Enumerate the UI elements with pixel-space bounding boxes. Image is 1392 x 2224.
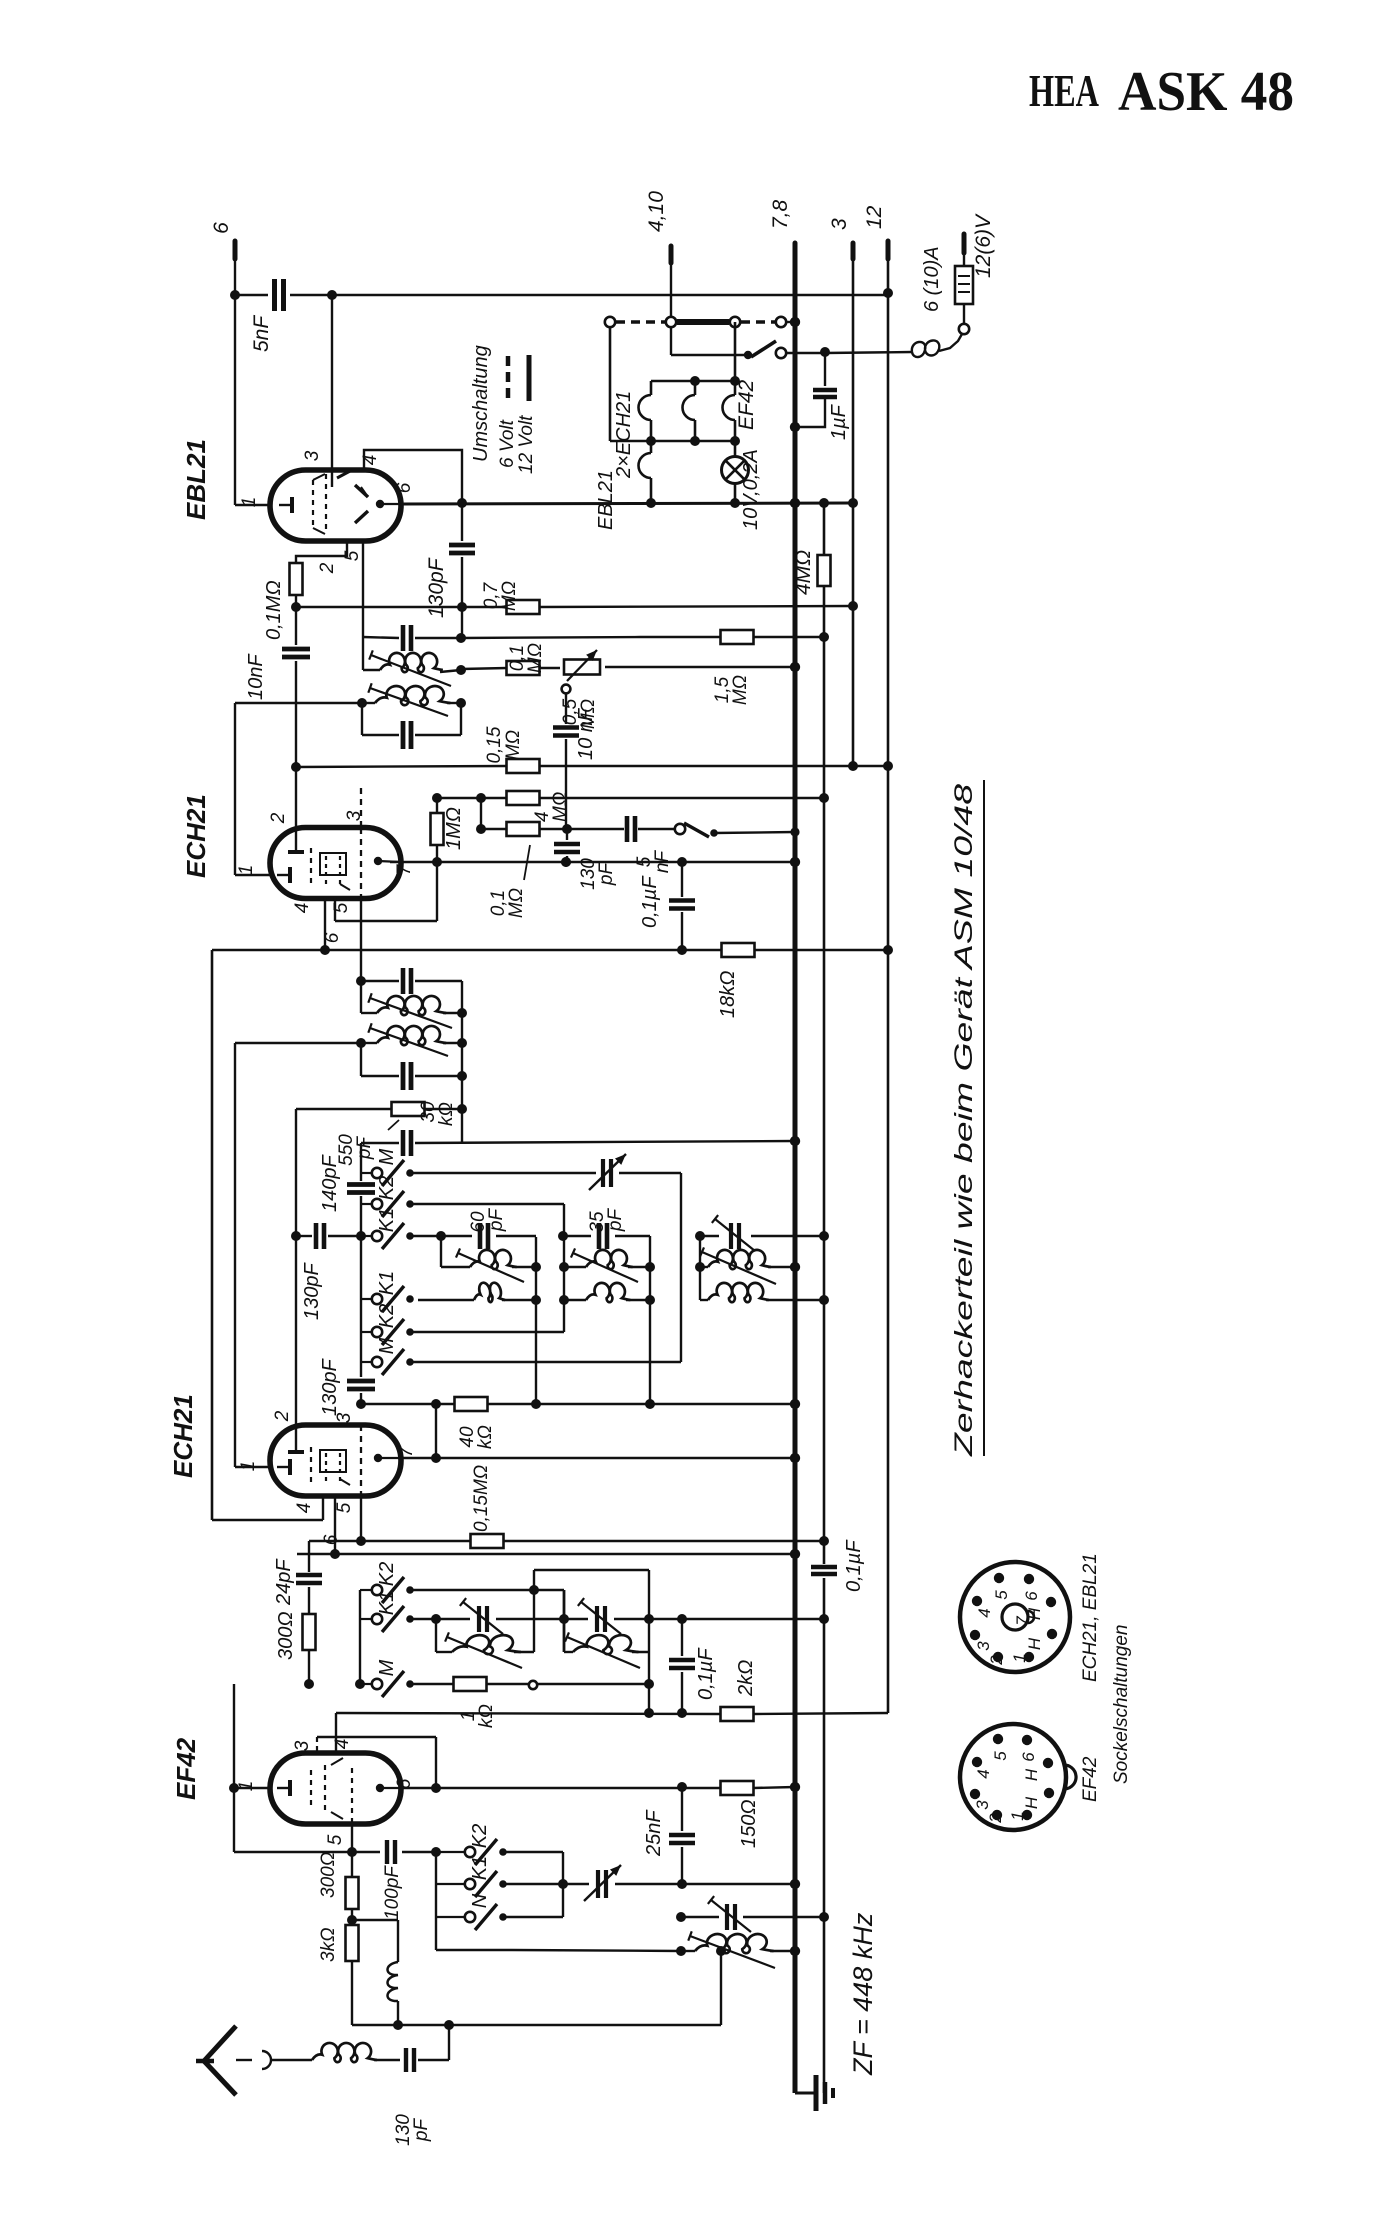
svg-text:2: 2 (317, 562, 338, 574)
svg-text:5: 5 (325, 1834, 346, 1845)
svg-text:pF: pF (354, 1136, 375, 1161)
svg-text:6: 6 (1022, 1591, 1041, 1601)
resistor 0,1MOhm agc2 (481, 822, 567, 918)
wire row K1 y1236 padder (412, 1231, 824, 1241)
capacitor 0,1uF if (639, 862, 695, 950)
svg-text:ASK 48: ASK 48 (1118, 61, 1294, 123)
wire EBL21 pin2 to grid resistor (296, 541, 347, 564)
bus 12 x888 (883, 259, 893, 1713)
svg-text:Umschaltung: Umschaltung (470, 345, 492, 462)
wire EF42 pin1 loop (229, 1684, 271, 1852)
capacitor 130pF anode (425, 503, 475, 618)
wire x235 to ECH21 mixer pin1 (235, 1043, 271, 1467)
svg-text:ECH21: ECH21 (181, 794, 211, 878)
svg-text:MΩ: MΩ (525, 643, 546, 673)
wire EF42 pin3 pin4 box (317, 1713, 436, 1788)
svg-text:4,10: 4,10 (645, 191, 668, 232)
switch standby (675, 823, 800, 837)
fuse 6(10)A (921, 246, 973, 312)
svg-text:HEA: HEA (1029, 65, 1099, 116)
terminal 3 (828, 218, 853, 259)
wire row K2 y1204 (412, 1204, 564, 1332)
resistor 300 Ohm ef42 grid (275, 1611, 316, 1689)
wire ECH21 IF pin6 drop (320, 862, 437, 955)
capacitor 10nF (245, 649, 310, 700)
resistor 40kOhm (455, 1397, 497, 1449)
svg-text:6 (10)A: 6 (10)A (921, 246, 943, 312)
socket ECH21 EBL21 (960, 1562, 1070, 1672)
wire top rail y295 (230, 288, 893, 300)
svg-text:10V,0,2A: 10V,0,2A (740, 449, 762, 530)
IF transformer 1 tank A (363, 625, 466, 686)
rf tank J coil (564, 1632, 649, 1668)
svg-text:K2: K2 (469, 1824, 491, 1848)
svg-text:7: 7 (394, 863, 415, 875)
switch K2 osc lower (361, 1304, 414, 1345)
wire n row y1917 (505, 1916, 563, 1918)
label ECH21 IF pins (236, 810, 415, 943)
svg-text:K1: K1 (376, 1591, 398, 1615)
resistor 1,5MOhm (640, 630, 824, 705)
svg-text:K2: K2 (376, 1176, 398, 1200)
svg-text:140pF: 140pF (319, 1154, 341, 1212)
varcap antenna (584, 1865, 621, 1901)
svg-text:EF42: EF42 (735, 379, 758, 430)
wire row K2 y1590 bridge (412, 1570, 654, 1718)
tube ECH21 IF (181, 794, 401, 898)
svg-text:K1: K1 (376, 1271, 398, 1295)
switch M osc top (361, 1148, 414, 1186)
wire row y950 (212, 945, 888, 955)
svg-text:3: 3 (973, 1800, 992, 1810)
svg-text:K2: K2 (376, 1562, 398, 1586)
label ECH21 mixer pins (238, 1410, 417, 1545)
svg-text:H: H (1025, 1637, 1044, 1650)
tube EBL21 (181, 439, 401, 541)
capacitor 10nF tap (553, 707, 597, 766)
switch M osc lower (361, 1337, 414, 1375)
wire row y1541 osc fb (309, 1540, 824, 1542)
osc tank E (418, 1236, 541, 1404)
svg-text:EF42: EF42 (171, 1737, 201, 1800)
svg-text:pF: pF (596, 862, 617, 887)
svg-text:6: 6 (394, 482, 415, 493)
resistor 150 Ohm (721, 1781, 761, 1848)
svg-text:ECH21, EBL21: ECH21, EBL21 (1080, 1553, 1101, 1682)
wire mixer pin4 to loop (212, 1496, 323, 1520)
wire ECH21 IF pin7 (389, 861, 391, 863)
svg-text:2: 2 (272, 1410, 293, 1422)
wire heater row y441 (610, 436, 740, 446)
svg-text:K1: K1 (376, 1208, 398, 1232)
wire row y798 (432, 793, 829, 803)
resistor 0,15MOhm osc (471, 1465, 504, 1548)
svg-text:0,1MΩ: 0,1MΩ (263, 580, 285, 640)
rf tank I coil (436, 1619, 534, 1668)
svg-text:N: N (469, 1893, 491, 1908)
svg-text:MΩ: MΩ (730, 675, 751, 705)
wire EBL21 pin4 strap (364, 450, 462, 503)
svg-text:Zerhackerteil wie beim Gerät A: Zerhackerteil wie beim Gerät ASM 10/48 (950, 784, 978, 1458)
capacitor 130pF antenna (393, 2025, 449, 2146)
coil antenna input (271, 2043, 400, 2062)
trimmer wavetrap (681, 1896, 824, 1932)
heater EF42 hump (723, 322, 759, 441)
svg-text:5: 5 (334, 1502, 355, 1513)
wire x462 tank bracket (461, 607, 463, 638)
svg-text:M: M (376, 1337, 398, 1354)
connector 12V plug (959, 303, 969, 334)
svg-text:5: 5 (992, 1590, 1011, 1600)
wire EBL21 pin6 row y503 (401, 498, 853, 508)
capacitor 5nF (250, 279, 284, 352)
bus 3 x853 (848, 259, 858, 771)
svg-text:ECH21: ECH21 (168, 1394, 198, 1478)
svg-text:2: 2 (987, 1655, 1006, 1666)
wire osc common x361 (356, 1143, 366, 1409)
switch M rf (360, 1659, 414, 1697)
wire row y1713 screen (336, 1713, 888, 1714)
tube EF42 (171, 1737, 401, 1824)
svg-text:6: 6 (1019, 1752, 1038, 1762)
svg-text:12: 12 (863, 205, 886, 229)
svg-text:4MΩ: 4MΩ (792, 550, 815, 595)
wire cathode node (347, 1909, 398, 1925)
wire left loop x212 (211, 950, 214, 1520)
svg-text:2×ECH21: 2×ECH21 (613, 391, 635, 479)
wire row y1852 antenna k2 (234, 1847, 441, 1857)
potentiometer 0,5MOhm volume (560, 650, 600, 729)
terminal 6 (210, 222, 235, 259)
resistor 3kOhm (318, 1925, 359, 1962)
IF transformer 2 tank D (235, 981, 467, 1090)
resistor 4MOhm (792, 550, 831, 595)
bus x824 (819, 503, 829, 2093)
svg-text:Sockelschaltungen: Sockelschaltungen (1111, 1625, 1132, 1785)
wire row y1554 (297, 1553, 795, 1555)
svg-text:10nF: 10nF (245, 653, 267, 700)
svg-text:4: 4 (292, 903, 313, 914)
wire row y2025 (352, 1951, 721, 2030)
resistor 0,15MOhm (484, 726, 540, 773)
svg-text:ZF = 448 kHz: ZF = 448 kHz (848, 1912, 878, 2076)
wire left loop x235 to ECH21a pin1 (235, 703, 271, 875)
wire row M lower y1362 (412, 1361, 681, 1363)
svg-text:pF: pF (605, 1208, 626, 1233)
svg-text:100pF: 100pF (382, 1865, 403, 1920)
svg-text:3: 3 (302, 450, 323, 461)
label Zerhackerteil note (950, 780, 984, 1457)
svg-text:300Ω: 300Ω (318, 1852, 339, 1898)
svg-text:1: 1 (236, 1781, 257, 1792)
capacitor 130pF series (319, 1358, 375, 1416)
heater EBL21 hump (595, 441, 651, 530)
svg-text:kΩ: kΩ (476, 1704, 497, 1728)
IF transformer 1 tank B (235, 683, 466, 749)
svg-text:0,15: 0,15 (484, 726, 505, 763)
svg-text:3kΩ: 3kΩ (318, 1927, 339, 1962)
svg-text:kΩ: kΩ (436, 1102, 457, 1126)
svg-text:H: H (1022, 1796, 1041, 1809)
terminal 4,10 (645, 191, 671, 263)
wire node6 to EBL21 pin1 (235, 259, 271, 505)
capacitor 0,1uF rf (669, 1619, 717, 1718)
wire row M y1684 with 1kOhm (412, 1677, 649, 1728)
resistor 18kOhm (717, 943, 755, 1018)
wire row y667 detector (461, 667, 795, 669)
svg-text:6: 6 (321, 1534, 342, 1545)
capacitor 60pF (468, 1208, 507, 1249)
svg-text:7: 7 (1013, 1616, 1032, 1626)
wire row y1141 osc (361, 1109, 795, 1143)
capacitor 5nF mixer (567, 816, 675, 873)
svg-text:EF42: EF42 (1080, 1756, 1101, 1802)
svg-text:1: 1 (238, 1461, 259, 1472)
svg-text:4: 4 (974, 1769, 993, 1778)
capacitor 130pF shunt (296, 1223, 361, 1320)
capacitor 24pF (273, 1541, 322, 1614)
wire row K2 lower y1332 (412, 1331, 564, 1333)
wire row y1950 ground bus (512, 1912, 726, 1956)
label sockets (1080, 1553, 1132, 1802)
svg-text:5: 5 (991, 1751, 1010, 1761)
wire EBL21 pin3 drop (331, 295, 333, 487)
svg-text:6 Volt: 6 Volt (497, 419, 518, 468)
resistor 2kOhm (721, 1660, 758, 1721)
switch heater 6/12V selector (744, 341, 786, 359)
svg-text:150Ω: 150Ω (738, 1799, 760, 1848)
svg-text:kΩ: kΩ (475, 1425, 496, 1449)
tube ECH21 mixer (168, 1394, 401, 1496)
title HEA ASK 48 (1029, 61, 1294, 123)
heater 2xECH21 hump A (613, 381, 651, 479)
svg-text:3: 3 (334, 1412, 355, 1423)
svg-text:MΩ: MΩ (506, 888, 527, 918)
wire row M y1173 with varcap (412, 1154, 681, 1362)
svg-text:6: 6 (210, 222, 233, 234)
wire 4,10 drop and switch arm feed (671, 263, 744, 355)
svg-text:3: 3 (828, 218, 851, 230)
svg-text:1µF: 1µF (828, 403, 850, 440)
svg-text:7,8: 7,8 (769, 199, 792, 229)
label EF42 pins (236, 1739, 415, 1846)
svg-text:0,1µF: 0,1µF (695, 1647, 717, 1700)
coil antenna tank H (681, 1931, 795, 1968)
terminal 12(6)V (964, 213, 995, 278)
wire grid node x296 down (291, 595, 301, 840)
svg-text:0,15MΩ: 0,15MΩ (471, 1465, 492, 1532)
wire row K1 y1619 (412, 1614, 824, 1624)
svg-text:0,1µF: 0,1µF (843, 1539, 865, 1592)
svg-text:130pF: 130pF (301, 1262, 323, 1320)
svg-text:K2: K2 (376, 1304, 398, 1328)
capacitor 140pF (319, 1154, 375, 1212)
trimmer rf I (460, 1598, 503, 1634)
svg-text:1: 1 (236, 865, 257, 876)
svg-text:5nF: 5nF (250, 315, 273, 352)
wire row y862 pin7 (378, 857, 795, 867)
coil cathode choke (388, 1920, 399, 2025)
wire EBL21 pin5 drop x363 (362, 541, 364, 637)
switch N ant (436, 1893, 507, 1930)
svg-text:0,1µF: 0,1µF (639, 875, 661, 928)
ground (795, 2075, 833, 2111)
resistor 0,7MOhm (481, 581, 540, 614)
wire row y1404 osc anode (361, 1399, 795, 1409)
wire cluster2 bracket x360 (355, 1590, 365, 1689)
wire k2 row right (505, 1852, 568, 1917)
wire row y638 from tankA (461, 637, 640, 638)
capacitor 0,1uF avc (811, 1539, 865, 1592)
heater 2xECH21 hump B (683, 381, 696, 441)
wire mixer pin7 row y1458 (401, 1457, 795, 1459)
resistor 0,1MOhm grid (263, 563, 303, 640)
resistor 4MOhm agc (507, 791, 572, 822)
svg-text:M: M (376, 1148, 398, 1165)
svg-text:H: H (1022, 1768, 1041, 1781)
svg-text:130pF: 130pF (425, 557, 448, 618)
terminal 7,8 (769, 199, 795, 259)
wire mixer pin3 dashed (356, 1425, 366, 1546)
svg-text:12(6)V: 12(6)V (972, 213, 995, 278)
IF transformer 2 tank C (356, 968, 467, 1028)
socket EF42 (960, 1724, 1076, 1830)
wire mixer pin6 drop (330, 1496, 340, 1559)
wire k1 row y1884 (505, 1879, 795, 1889)
trimmer osc K1 (712, 1215, 755, 1251)
trimmer rf J (578, 1598, 621, 1634)
antenna (196, 2026, 271, 2095)
capacitor 35pF (587, 1208, 626, 1249)
wire cluster3 bracket (436, 1852, 512, 1950)
svg-text:130pF: 130pF (319, 1358, 341, 1416)
osc tank G (695, 1236, 824, 1302)
wire row y766 (296, 766, 888, 767)
resistor 1MOhm osc grid (431, 798, 466, 862)
switch K2 osc (361, 1176, 414, 1217)
svg-text:3: 3 (292, 1740, 313, 1751)
svg-text:MΩ: MΩ (503, 730, 524, 760)
svg-text:24pF: 24pF (273, 1558, 295, 1606)
svg-text:1: 1 (1008, 1811, 1027, 1820)
capacitor 1uF (797, 353, 850, 440)
switch K1 rf (360, 1591, 414, 1632)
wire heater row y381 (651, 376, 740, 386)
legend Umschaltung 6Volt 12Volt (470, 345, 537, 474)
capacitor 550pF (336, 1120, 411, 1166)
switch K1 osc (361, 1208, 414, 1249)
svg-text:1: 1 (1010, 1653, 1029, 1662)
svg-text:4: 4 (975, 1608, 994, 1617)
svg-text:3: 3 (974, 1641, 993, 1651)
wire ECH21 IF pin3 anode drop (360, 788, 362, 981)
wire EF42 pin6 row y1788 (401, 1782, 795, 1793)
capacitor 100pF (382, 1840, 403, 1920)
osc tank F (559, 1236, 655, 1404)
terminal 12 (863, 205, 888, 259)
svg-text:300Ω: 300Ω (275, 1611, 297, 1660)
bus 7,8 main x795 (790, 259, 800, 2093)
svg-text:12 Volt: 12 Volt (516, 415, 537, 474)
resistor 300 Ohm cathode (318, 1852, 359, 1909)
svg-text:2: 2 (986, 1813, 1005, 1824)
wire 12V feed y353 with choke (786, 334, 962, 357)
switch K1 ant (436, 1856, 507, 1897)
svg-text:EBL21: EBL21 (181, 439, 211, 520)
wire EF42 pin5 cathode (347, 1824, 357, 1877)
node dashed 6V row (605, 317, 800, 327)
svg-text:1MΩ: 1MΩ (443, 807, 465, 850)
svg-text:M: M (376, 1659, 398, 1676)
label ZF 448 kHz (848, 1912, 878, 2076)
svg-text:25nF: 25nF (643, 1809, 665, 1857)
wire x436 to pin7 row (431, 1404, 441, 1463)
resistor 30kOhm (296, 1076, 467, 1236)
svg-text:4: 4 (294, 1503, 315, 1514)
lamp 10V 0,2A (722, 441, 763, 530)
switch K1 osc lower (361, 1271, 414, 1312)
svg-text:7: 7 (396, 1445, 417, 1457)
svg-text:pF: pF (486, 1208, 507, 1233)
svg-text:2kΩ: 2kΩ (735, 1660, 757, 1697)
svg-text:MΩ: MΩ (499, 581, 520, 611)
resistor 0,1MOhm det (507, 643, 547, 675)
capacitor 25nF (643, 1787, 695, 1884)
switch K2 rf (360, 1562, 414, 1603)
svg-text:pF: pF (411, 2118, 432, 2143)
svg-text:K1: K1 (469, 1856, 491, 1880)
switch K2 ant (436, 1824, 507, 1865)
wire x567 10nF/130pF column (554, 766, 617, 890)
svg-text:EBL21: EBL21 (595, 470, 617, 530)
wire row y607 AVC (296, 606, 853, 607)
wire mixer pin2 grid (291, 1231, 301, 1443)
svg-text:2: 2 (268, 812, 289, 824)
svg-text:1: 1 (239, 497, 260, 508)
wire bracket x481 (476, 798, 486, 834)
svg-text:MΩ: MΩ (550, 792, 571, 822)
wire 6V drop x610 (609, 327, 612, 441)
svg-text:18kΩ: 18kΩ (717, 971, 739, 1018)
label EBL21 pins (239, 450, 415, 574)
svg-text:10 nF: 10 nF (575, 707, 597, 760)
